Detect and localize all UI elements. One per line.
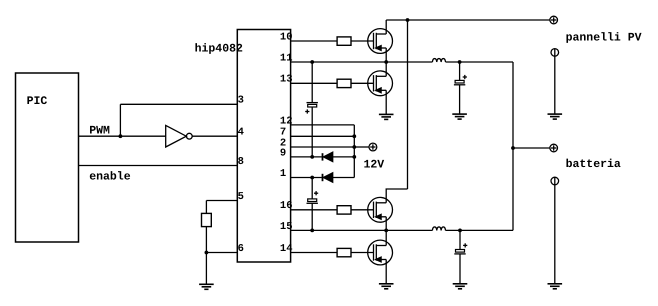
junction pin2 on bus — [352, 145, 356, 149]
ground below R1 — [199, 284, 214, 289]
wire pin 2 row — [291, 146, 355, 148]
svg-text:13: 13 — [280, 74, 293, 86]
wire pin 12 row — [291, 124, 355, 126]
inverter U2 output bubble — [186, 133, 192, 139]
svg-text:12: 12 — [280, 115, 293, 127]
ground below C3 — [452, 114, 467, 119]
node pannelli PV minus terminal — [551, 49, 559, 57]
svg-text:5: 5 — [238, 191, 244, 203]
ground below pannelli PV minus — [548, 114, 563, 119]
transistor Q1 high-side A mosfet — [368, 29, 393, 54]
capacitor C4 output filter B — [454, 230, 467, 283]
svg-text:15: 15 — [280, 221, 293, 233]
junction PWM node — [119, 134, 123, 138]
ground below C4 — [453, 284, 468, 289]
wire Q1 drain to top rail — [385, 20, 387, 34]
svg-text:14: 14 — [280, 243, 293, 255]
wire pin5 down to resistor R1 — [205, 201, 207, 214]
wire diode D1 to bus — [333, 156, 355, 158]
node pannelli PV plus terminal — [550, 16, 558, 24]
resistor R1 (pulldown on pin5/6) — [202, 213, 212, 226]
wire PWM from PIC to inverter input — [79, 135, 166, 137]
junction pin1 bootstrap — [310, 176, 314, 180]
svg-text:10: 10 — [280, 31, 293, 43]
transistor Q2 low-side A mosfet — [368, 71, 393, 96]
transistor Q4 low-side B mosfet — [368, 240, 393, 265]
inductor L1 phase A — [432, 59, 445, 62]
resistor R2 gate of Q1 — [337, 37, 351, 45]
wire L2 to phase join — [446, 229, 514, 231]
wire pin 2 to 12V terminal — [354, 146, 369, 148]
junction pin9 on bus — [352, 155, 356, 159]
junction pin15 bootstrap — [310, 229, 314, 233]
wire pin 7 row — [291, 135, 355, 137]
wire Q4 drain to phase B node — [385, 230, 387, 245]
wire pin 10 row to gate resistor R2 — [291, 40, 338, 42]
wire diode D2 to bus — [333, 177, 355, 179]
junction battery tap — [511, 146, 515, 150]
wire Q2 source to ground — [385, 90, 387, 114]
wire pin 1 row to diode D2 — [291, 177, 322, 179]
resistor R5 gate of Q4 — [337, 248, 351, 256]
svg-text:PIC: PIC — [27, 95, 48, 108]
node 12V positive supply terminal — [369, 143, 377, 151]
wire pin 13 row to gate resistor R3 — [291, 82, 338, 84]
svg-text:pannelli PV: pannelli PV — [566, 31, 642, 44]
capacitor C2 bootstrap B (pin1 to pin15) — [307, 178, 319, 231]
wire rail A vertical from top rail — [407, 20, 409, 189]
wire R4 to gate of Q3 — [351, 209, 374, 211]
wire R3 to gate of Q2 — [351, 82, 374, 84]
svg-text:12V: 12V — [364, 159, 385, 172]
junction after L1 — [458, 60, 462, 64]
wire inverter output to pin 4 — [192, 135, 237, 137]
wire pin 5 row — [206, 200, 237, 202]
hip4082 driver IC box U1 — [237, 30, 290, 263]
wire Q2 drain to phase A node — [385, 62, 387, 76]
PIC microcontroller box — [16, 73, 79, 242]
wire pin 15 phase B row — [291, 229, 433, 231]
svg-text:16: 16 — [280, 200, 293, 212]
wire bus vertical pin12 to pin1 — [353, 125, 355, 178]
wire pin 6 row — [206, 252, 237, 254]
junction top rail / rail A — [406, 18, 410, 22]
wire Q1 source to phase A node — [385, 48, 387, 62]
svg-text:9: 9 — [280, 147, 286, 159]
wire pin 3 row to hip4082 — [120, 103, 237, 105]
capacitor C3 output filter A — [454, 62, 467, 114]
wire phase join vertical to battery — [512, 62, 514, 230]
wire pannelli minus to ground — [554, 56, 556, 114]
wire enable from PIC to pin 8 — [79, 165, 238, 167]
resistor R3 gate of Q2 — [337, 79, 351, 87]
wire pin 16 row to gate resistor R4 — [291, 209, 338, 211]
wire vertical from PWM node up to pin3 row — [119, 104, 121, 136]
node batteria minus terminal — [551, 177, 559, 185]
svg-text:4: 4 — [238, 127, 244, 139]
junction pin7 on bus — [352, 134, 356, 138]
junction phase A node — [384, 60, 388, 64]
svg-text:8: 8 — [238, 156, 244, 168]
wire pin 9 row to diode D1 — [291, 156, 322, 158]
junction pin11 bootstrap tap — [310, 60, 314, 64]
wire L1 to phase join — [446, 61, 514, 63]
inductor L2 phase B — [432, 227, 445, 230]
ground below batteria minus — [548, 284, 563, 289]
diode D1 bootstrap — [323, 152, 333, 161]
svg-text:3: 3 — [238, 95, 244, 107]
transistor Q3 high-side B mosfet — [368, 197, 393, 222]
svg-text:PWM: PWM — [89, 124, 110, 137]
wire top rail PV+ — [386, 19, 550, 21]
capacitor C1 bootstrap A (pin11 to pin9) — [305, 62, 318, 157]
resistor R4 gate of Q3 — [337, 206, 351, 214]
svg-text:hip4082: hip4082 — [195, 43, 243, 56]
wire R5 to gate of Q4 — [351, 252, 374, 254]
wire pin 11 phase A row — [291, 61, 433, 63]
junction phase B node — [384, 229, 388, 233]
svg-text:batteria: batteria — [566, 158, 621, 171]
svg-text:11: 11 — [280, 52, 293, 64]
wire Q4 source to ground — [385, 260, 387, 284]
svg-text:6: 6 — [238, 243, 244, 255]
svg-text:1: 1 — [280, 168, 286, 180]
junction after L2 — [458, 229, 462, 233]
diode D2 bootstrap — [323, 173, 333, 182]
svg-text:enable: enable — [89, 171, 131, 184]
wire battery tap to terminal — [513, 147, 550, 149]
inverter U2 triangle — [166, 125, 187, 147]
wire R2 to gate of Q1 — [351, 40, 374, 42]
wire batteria minus to ground — [554, 185, 556, 284]
wire resistor R1 to ground — [205, 227, 207, 285]
wire Q3 source to phase B node — [385, 217, 387, 231]
wire pin 14 row to gate resistor R5 — [291, 252, 338, 254]
ground below Q4 — [379, 284, 394, 289]
node batteria plus terminal — [550, 144, 558, 152]
junction pin9 bootstrap — [310, 155, 314, 159]
wire Q3 drain L to rail A — [386, 189, 407, 203]
ground below Q2 — [379, 114, 394, 119]
junction pin6 resistor node — [205, 251, 209, 255]
